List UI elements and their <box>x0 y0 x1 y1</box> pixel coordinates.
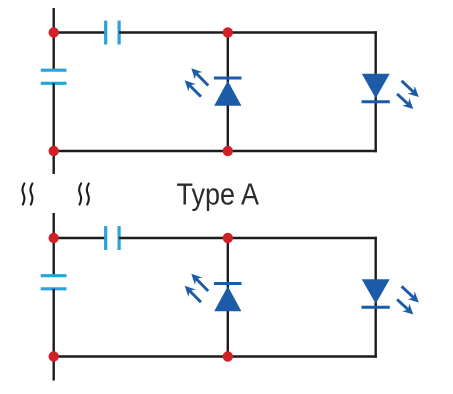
LED D22 triangle (anode) <box>362 279 390 304</box>
wire: bottom rail (circuit 1) <box>54 150 377 152</box>
node: bottom-middle junction (circuit 2) <box>223 351 233 361</box>
node: bottom-left junction (circuit 2) <box>49 351 59 361</box>
capacitor C2a bottom plate <box>41 287 67 290</box>
node: top-middle junction (circuit 2) <box>223 233 233 243</box>
wire: right rail (circuit 2) <box>375 237 377 358</box>
LED D11 emitted-light arrow upper <box>196 73 208 85</box>
node: bottom-left junction (circuit 1) <box>49 146 59 156</box>
wire: bottom rail (circuit 2) <box>54 355 377 357</box>
node: bottom-middle junction (circuit 1) <box>223 146 233 156</box>
wire: middle branch (circuit 1) <box>227 33 229 152</box>
LED D22 emitted-light arrow lower <box>397 299 408 309</box>
wire: middle branch (circuit 2) <box>227 238 229 357</box>
LED D22 cathode bar <box>362 306 390 309</box>
LED D11 cathode bar <box>214 77 242 80</box>
LED D11 triangle (anode) <box>214 81 241 106</box>
wire: left rail upper segment (circuit 1) <box>53 8 55 70</box>
LED D11 emitted-light arrow lower <box>190 85 201 96</box>
node: top-left junction (circuit 2) <box>49 233 59 243</box>
LED D21 cathode bar <box>214 282 242 285</box>
wire: left rail lower segment (circuit 2) <box>53 289 55 381</box>
capacitor C1b left plate <box>104 21 107 45</box>
LED D21 emitted-light arrow upper <box>196 279 208 291</box>
LED D12 cathode bar <box>362 100 390 103</box>
node: top-left junction (circuit 1) <box>49 27 59 37</box>
capacitor C1b right plate <box>117 21 120 45</box>
wire: top rail left segment (circuit 2) <box>54 237 106 239</box>
node: top-middle junction (circuit 1) <box>223 27 233 37</box>
wire break mark 4 (right pair, second squiggle) <box>87 184 89 205</box>
wire break mark 2 (left pair, second squiggle) <box>30 184 32 205</box>
wire: top rail right segment (circuit 1) <box>119 31 377 33</box>
capacitor C1a top plate <box>41 69 67 72</box>
LED D12 emitted-light arrow lower <box>397 94 408 104</box>
capacitor C2b left plate <box>104 226 107 250</box>
LED D22 emitted-light arrow upper <box>402 286 414 297</box>
wire: right rail (circuit 1) <box>375 31 377 152</box>
svg-text:Type A: Type A <box>177 177 260 212</box>
wire: top rail right segment (circuit 2) <box>119 237 377 239</box>
wire: top rail left segment (circuit 1) <box>54 31 106 33</box>
LED D21 triangle (anode) <box>214 286 241 311</box>
wire break mark 3 (right pair, first squiggle) <box>79 184 81 205</box>
wire break mark 1 (left pair, first squiggle) <box>22 184 24 205</box>
LED D12 triangle (anode) <box>362 74 390 99</box>
wire: left rail lower segment (circuit 1) <box>53 83 55 174</box>
capacitor C2b right plate <box>117 226 120 250</box>
LED D12 emitted-light arrow upper <box>402 81 414 92</box>
wire: left rail upper segment (circuit 2) <box>53 213 55 276</box>
LED D21 emitted-light arrow lower <box>190 291 201 302</box>
capacitor C1a bottom plate <box>41 82 67 85</box>
capacitor C2a top plate <box>41 274 67 277</box>
